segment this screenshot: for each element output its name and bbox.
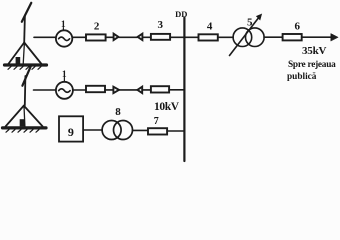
svg-text:10kV: 10kV xyxy=(154,101,180,113)
arrowhead right (converter) xyxy=(114,34,119,40)
wire block 7 to busbar xyxy=(167,130,183,132)
block 2 xyxy=(86,34,106,40)
wire block 2 to arrow xyxy=(106,36,114,38)
svg-text:Spre rejeaua: Spre rejeaua xyxy=(288,60,336,70)
wire WT2 to G2 xyxy=(34,89,56,91)
label Spre rejeaua publica xyxy=(287,60,336,82)
wire busbar to block 4 xyxy=(185,36,198,38)
wind turbine WT1 xyxy=(5,3,47,70)
wire between arrowheads (row2) xyxy=(119,89,137,91)
control box 9 xyxy=(59,116,83,141)
wire WT1 to G1 xyxy=(34,36,56,38)
svg-text:35kV: 35kV xyxy=(302,45,327,57)
wire to public grid with arrowhead xyxy=(302,34,338,41)
svg-text:7: 7 xyxy=(154,116,159,127)
wire box 9 to transformer T8 xyxy=(83,129,102,131)
svg-text:publică: publică xyxy=(287,72,317,82)
generator G2 label tick xyxy=(63,78,65,82)
arrowhead left (converter) xyxy=(138,34,143,40)
svg-text:4: 4 xyxy=(207,21,213,33)
arrowhead left (row2) xyxy=(137,87,142,93)
wire row2 to busbar xyxy=(169,89,183,91)
block 6 xyxy=(283,34,302,40)
svg-text:DD: DD xyxy=(175,9,187,19)
generator G2 xyxy=(56,82,73,99)
wire T5 to block 6 xyxy=(264,36,283,38)
wire to row2 block b xyxy=(142,89,151,91)
block 3 xyxy=(151,34,170,40)
svg-text:6: 6 xyxy=(294,21,300,33)
wire T8 to block 7 xyxy=(133,129,148,131)
transformer T5 xyxy=(233,28,264,47)
transformer T8 xyxy=(102,121,132,140)
block row2 b xyxy=(151,86,169,92)
wire arrow to block 3 xyxy=(142,36,151,38)
svg-text:3: 3 xyxy=(158,19,164,31)
wire G2 to row2 block a xyxy=(73,89,86,91)
busbar DD xyxy=(183,18,185,162)
svg-text:2: 2 xyxy=(94,20,100,32)
block 7 xyxy=(148,128,167,134)
block row2 a xyxy=(86,86,105,92)
wire G1 to block 2 xyxy=(72,36,86,38)
tap-changer arrow through T5 xyxy=(230,14,262,55)
arrowhead right (row2) xyxy=(113,87,119,93)
generator G1 xyxy=(56,30,72,46)
wire between arrowheads xyxy=(119,36,138,38)
svg-text:1: 1 xyxy=(61,20,66,30)
svg-text:1: 1 xyxy=(62,70,67,80)
generator G1 label tick xyxy=(62,28,64,31)
wind turbine WT2 xyxy=(3,66,47,132)
wire block 3 to busbar xyxy=(170,36,183,38)
svg-text:9: 9 xyxy=(68,125,74,139)
wire to arrowhead xyxy=(105,89,113,91)
wire block 4 to transformer T5 xyxy=(218,36,233,38)
svg-text:8: 8 xyxy=(115,106,121,118)
block 4 xyxy=(199,34,218,40)
